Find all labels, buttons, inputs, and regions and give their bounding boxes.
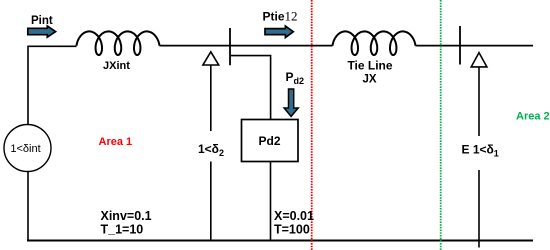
svg-text:Area 2: Area 2 xyxy=(516,111,550,123)
wire: below load box to bottom rail xyxy=(270,162,272,241)
wire: left riser from source up to top rail xyxy=(28,46,77,124)
wire: branch from bus 1 to load box xyxy=(231,56,271,120)
inductor JXint xyxy=(77,31,160,55)
svg-text:JXint: JXint xyxy=(103,60,130,72)
node bus 1 xyxy=(229,28,231,65)
boundary green dotted xyxy=(440,0,442,250)
svg-text:X=0.01: X=0.01 xyxy=(274,209,314,223)
node bus 2 xyxy=(459,26,461,65)
source G1 circle xyxy=(4,125,51,172)
wire: phasor stem delta2 lower xyxy=(210,162,212,241)
arrow Ptie12 xyxy=(265,26,293,38)
arrow Pint xyxy=(28,26,56,37)
phasor arrow head node delta2 xyxy=(203,52,219,65)
svg-text:Pd2: Pd2 xyxy=(258,134,280,148)
wire: phasor stem delta1 lower xyxy=(478,170,480,248)
svg-text:Area 1: Area 1 xyxy=(99,136,133,148)
wire: top rail middle segment xyxy=(160,45,333,47)
svg-text:Pd2: Pd2 xyxy=(286,70,305,86)
load box Pd2 xyxy=(242,120,299,162)
wire: top rail right segment xyxy=(416,45,534,47)
wire: below source to bottom rail xyxy=(27,172,29,241)
boundary red dotted xyxy=(311,0,313,250)
wire: phasor stem delta1 upper xyxy=(478,67,480,136)
svg-text:T=100: T=100 xyxy=(274,223,310,237)
svg-text:1<δint: 1<δint xyxy=(10,143,40,155)
phasor arrow head node E delta1 xyxy=(471,53,487,67)
svg-text:Pint: Pint xyxy=(31,15,53,27)
inductor Tie Line JX xyxy=(333,31,416,55)
svg-text:T_1=10: T_1=10 xyxy=(101,223,144,237)
arrow P_d2 down xyxy=(284,89,298,116)
svg-text:Xinv=0.1: Xinv=0.1 xyxy=(101,209,152,223)
wire: phasor stem delta2 upper xyxy=(210,65,212,131)
svg-text:E 1<δ1: E 1<δ1 xyxy=(462,143,499,159)
svg-text:Ptie12: Ptie12 xyxy=(263,8,298,23)
svg-text:1<δ2: 1<δ2 xyxy=(198,142,224,158)
svg-text:Tie Line: Tie Line xyxy=(347,59,392,73)
svg-text:JX: JX xyxy=(362,74,376,86)
wire: bottom rail xyxy=(27,240,533,242)
